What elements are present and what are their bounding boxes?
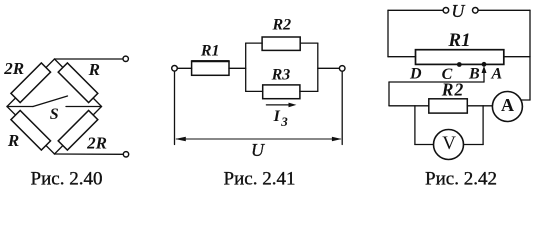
- svg-text:U: U: [451, 1, 465, 21]
- svg-text:D: D: [409, 66, 422, 83]
- svg-text:S: S: [50, 106, 59, 123]
- svg-text:R: R: [88, 60, 100, 79]
- svg-text:V: V: [442, 133, 456, 154]
- svg-text:I: I: [273, 108, 281, 125]
- svg-text:R1: R1: [447, 30, 470, 51]
- svg-text:R2: R2: [441, 79, 464, 99]
- svg-text:A: A: [501, 95, 514, 115]
- svg-text:B: B: [468, 66, 480, 83]
- svg-text:2R: 2R: [3, 59, 24, 78]
- svg-text:R: R: [7, 131, 19, 150]
- svg-text:Рис. 2.41: Рис. 2.41: [224, 169, 296, 190]
- svg-text:A: A: [490, 65, 502, 82]
- svg-text:Рис. 2.40: Рис. 2.40: [31, 169, 103, 190]
- svg-text:R1: R1: [200, 42, 220, 59]
- svg-text:U: U: [251, 140, 265, 160]
- svg-text:R2: R2: [271, 17, 291, 34]
- svg-text:2R: 2R: [86, 133, 107, 152]
- svg-text:Рис. 2.42: Рис. 2.42: [425, 169, 497, 190]
- svg-text:3: 3: [280, 114, 288, 129]
- svg-text:R3: R3: [271, 67, 291, 84]
